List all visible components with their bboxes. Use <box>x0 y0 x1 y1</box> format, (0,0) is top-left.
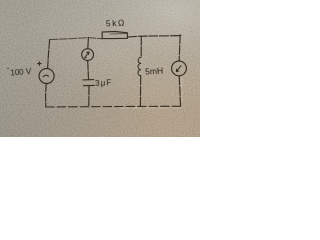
lead inductor to bottom wire <box>139 76 141 107</box>
inductor branch top lead <box>140 36 142 57</box>
capacitor C (3 uF) top plate <box>83 79 94 81</box>
svg-text:100 V: 100 V <box>10 67 32 77</box>
left vertical wire <box>48 40 50 69</box>
paper background <box>0 0 200 137</box>
lead meter to capacitor <box>87 61 90 80</box>
middle branch top lead <box>87 38 90 49</box>
ammeter inner arrow <box>85 52 89 58</box>
bottom wire <box>46 105 181 108</box>
current source circle right <box>172 61 187 76</box>
svg-text:3μF: 3μF <box>95 78 113 88</box>
resistor R (5k ohm box) <box>102 32 127 39</box>
lead capacitor to bottom wire <box>88 86 90 107</box>
voltage source circle (100 V) <box>39 69 54 84</box>
inductor L (5 mH) coil <box>138 57 141 75</box>
source inner mark <box>43 75 48 76</box>
plus sign polarity <box>38 62 42 66</box>
right source inner arrow <box>176 66 181 72</box>
wire source to bottom-left corner <box>45 84 48 107</box>
capacitor bottom plate <box>84 84 95 86</box>
wire source to bottom-right corner <box>179 76 180 107</box>
dust speck <box>7 68 8 69</box>
wire resistor to top-right corner <box>127 36 181 37</box>
ammeter circle A1 <box>82 49 94 61</box>
right vertical wire top <box>178 35 181 61</box>
svg-text:5kΩ: 5kΩ <box>106 18 127 29</box>
wire emboss highlight <box>120 78 182 108</box>
wire top-left to resistor <box>50 38 103 40</box>
svg-text:5mH: 5mH <box>145 65 163 76</box>
